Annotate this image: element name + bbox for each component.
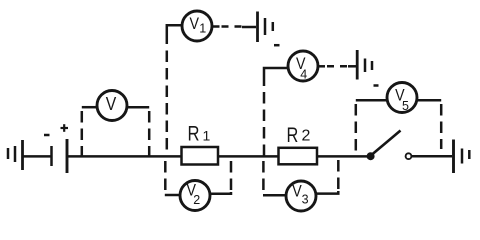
wire dashed voltmeter V2 right riser bbox=[230, 156, 233, 192]
voltmeter V4 circle bbox=[288, 51, 318, 81]
battery GB1 left fade bar tall bbox=[21, 140, 24, 170]
voltmeter V circle bbox=[97, 91, 127, 121]
wire voltmeter V3 right lead bbox=[316, 191, 338, 194]
wire dashed voltmeter V4 to battery GB3 bbox=[327, 65, 349, 68]
wire voltmeter V4 left lead bbox=[264, 68, 288, 86]
battery GB2 top plate tall bbox=[256, 12, 259, 43]
wire voltmeter V5 right lead bbox=[417, 99, 441, 102]
wire dashed voltmeter V5 right drop bbox=[440, 102, 443, 149]
wire battery GB3 lead bbox=[348, 65, 356, 68]
svg-text:2: 2 bbox=[193, 193, 200, 207]
battery GB3 plate medium bbox=[364, 59, 367, 73]
label minus at battery bbox=[44, 134, 50, 137]
svg-text:R: R bbox=[188, 123, 200, 146]
wire R1 to R2 bbox=[218, 155, 279, 158]
wire dashed voltmeter V right drop bbox=[148, 109, 151, 156]
battery GB1 positive plate bbox=[66, 139, 69, 173]
battery GB3 plate tall bbox=[356, 50, 359, 80]
switch S1 pivot node (filled) bbox=[367, 152, 375, 160]
wire battery left segment bbox=[23, 155, 51, 158]
wire dashed voltmeter V4 left drop to node B bbox=[263, 92, 266, 156]
wire dashed voltmeter V left drop bbox=[81, 109, 84, 156]
wire dashed voltmeter V3 left riser bbox=[262, 159, 265, 193]
battery GB3 plate short bbox=[371, 61, 374, 70]
resistor R2 bbox=[279, 148, 318, 165]
voltmeter V3 circle bbox=[286, 181, 316, 211]
battery GB1 left fade bar medium bbox=[14, 146, 17, 162]
svg-text:R: R bbox=[287, 124, 299, 147]
label plus at battery bbox=[61, 124, 69, 132]
wire R2 to switch bbox=[317, 155, 368, 158]
svg-text:2: 2 bbox=[302, 128, 311, 145]
wire dashed voltmeter V5 left drop bbox=[355, 102, 358, 151]
wire voltmeter V1 left lead bbox=[167, 25, 182, 44]
battery GB2 top plate medium bbox=[264, 18, 267, 35]
svg-text:5: 5 bbox=[402, 99, 409, 113]
main wire from battery to resistor R1 bbox=[68, 155, 182, 158]
switch S1 open terminal bbox=[406, 153, 412, 159]
battery GB2 top plate short bbox=[272, 22, 275, 31]
battery GB1 negative plate bbox=[50, 146, 53, 166]
wire voltmeter V5 left lead bbox=[356, 99, 387, 102]
wire voltmeter V1 right lead stub bbox=[212, 25, 219, 28]
wire dashed voltmeter V2 left riser bbox=[164, 159, 167, 193]
wire switch to battery right bbox=[412, 155, 452, 158]
voltmeter V5 circle bbox=[387, 83, 417, 113]
wire voltmeter V2 left lead bbox=[165, 194, 180, 197]
battery GB1 right fade bar medium bbox=[461, 149, 464, 164]
label minus below battery GB2 bbox=[274, 44, 280, 47]
svg-text:V: V bbox=[190, 14, 200, 33]
svg-text:4: 4 bbox=[300, 68, 307, 82]
wire dashed voltmeter V1 to battery GB2 bbox=[222, 25, 244, 28]
wire dashed voltmeter V1 left drop to node A bbox=[166, 51, 169, 157]
svg-text:3: 3 bbox=[302, 192, 309, 206]
svg-text:1: 1 bbox=[203, 128, 211, 144]
wire voltmeter V right lead bbox=[127, 106, 149, 109]
voltmeter V2 circle bbox=[180, 181, 210, 211]
label minus below battery GB3 bbox=[374, 84, 379, 87]
svg-text:V: V bbox=[106, 93, 117, 114]
battery GB1 right positive plate tall bbox=[452, 140, 455, 174]
svg-text:1: 1 bbox=[199, 22, 206, 36]
wire dashed voltmeter V3 right riser bbox=[337, 156, 340, 191]
wire voltmeter V left lead bbox=[82, 106, 97, 109]
wire battery GB2 lead bbox=[242, 26, 256, 29]
wire voltmeter V4 right lead stub bbox=[318, 65, 325, 68]
voltmeter V1 circle bbox=[182, 11, 212, 41]
battery GB1 right fade bar short bbox=[468, 150, 471, 159]
resistor R1 bbox=[182, 147, 219, 165]
wire voltmeter V3 left lead bbox=[263, 194, 286, 197]
wire voltmeter V2 right lead bbox=[210, 192, 231, 194]
switch S1 lever bbox=[372, 131, 401, 155]
battery GB1 left fade bar short bbox=[7, 148, 10, 159]
